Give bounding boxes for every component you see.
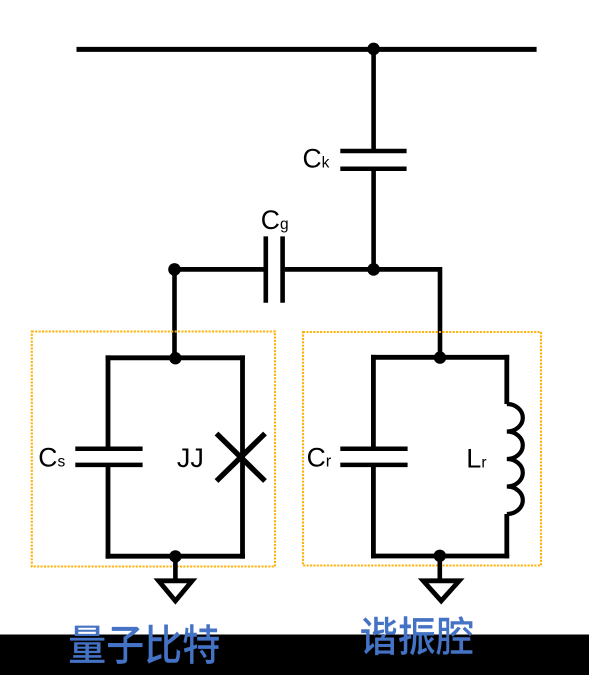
svg-text:JJ: JJ [177, 443, 204, 473]
wire: qubit loop top [106, 355, 245, 360]
wire: Cg right plate to coupling node and right corner [285, 267, 440, 272]
inductor Lr coil [507, 404, 523, 514]
wire: resonator loop left lower [371, 465, 376, 559]
wire: down into resonator loop [438, 267, 443, 357]
capacitor Cr [340, 449, 407, 465]
node: coupling node [367, 263, 380, 276]
wire: down into qubit loop [172, 269, 177, 357]
capacitor Cg [266, 236, 283, 302]
node: qubit loop top dot [169, 352, 181, 364]
node: resonator loop bottom dot [434, 550, 446, 562]
capacitor Cs [75, 449, 142, 465]
label 谐振腔 (resonator) [361, 616, 472, 655]
wire: left dot to Cg left plate [175, 267, 264, 272]
wire: top feedline [77, 47, 537, 52]
ground (resonator) [423, 581, 459, 601]
wire: qubit loop left upper [106, 355, 111, 448]
wire: qubit loop bottom [106, 554, 245, 559]
qubit loop wires [106, 355, 245, 558]
ground (qubit) [159, 581, 193, 601]
label 量子比特 (qubit) [70, 624, 219, 664]
wire: qubit loop left lower [106, 465, 111, 559]
resonator loop wires [371, 355, 509, 559]
node: qubit loop bottom dot [169, 550, 181, 562]
wire: resonator loop right lower [504, 514, 509, 558]
capacitor Ck [340, 151, 406, 169]
node: resonator loop top dot [434, 351, 446, 363]
wire: resonator loop left upper [371, 355, 376, 449]
qubit dashed box [32, 332, 275, 567]
node: qubit branch dot [168, 263, 181, 276]
wire: resonator ground stem [437, 556, 442, 581]
wire: qubit ground stem [173, 556, 178, 580]
black bottom bar [0, 635, 589, 675]
wire: resonator loop bottom [371, 554, 509, 559]
wire: resonator loop right upper [504, 355, 509, 404]
Josephson junction JJ (X) [217, 434, 266, 482]
resonator dashed box [303, 332, 541, 566]
wire: feedline down to Ck [371, 49, 376, 149]
node: feedline tap junction [367, 43, 380, 56]
wire: resonator loop top [371, 355, 509, 360]
wire: qubit loop right [240, 355, 245, 558]
wire: Ck down to coupling node [371, 171, 376, 270]
